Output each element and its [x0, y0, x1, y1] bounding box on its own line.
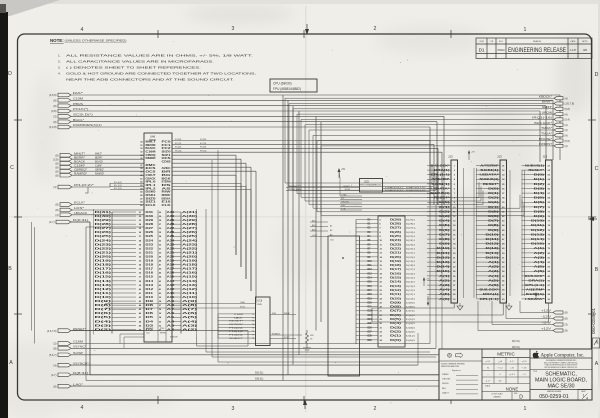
svg-text:A(6): A(6): [439, 298, 450, 301]
wire FC(1)1: [172, 143, 434, 145]
svg-text:D(3)1: D(3)1: [406, 327, 416, 329]
power stub -12V: [553, 317, 563, 320]
wire IPL2: [110, 189, 144, 191]
svg-text:DSK1: DSK1: [146, 195, 157, 197]
svg-text:D(10): D(10): [95, 296, 112, 299]
wire VSYNCD*+: [71, 364, 418, 366]
svg-text:A(5): A(5): [439, 293, 450, 296]
wire cpu right ctl drop 9: [250, 190, 252, 292]
svg-text:A/TERM*: A/TERM*: [480, 164, 498, 167]
svg-text:A(6): A(6): [488, 284, 499, 287]
wire UC5 stub DS*: [340, 199, 362, 201]
input stub SUSP: [58, 353, 71, 357]
wire TM0A* drop: [308, 130, 310, 205]
svg-text:PD(1)1: PD(1)1: [200, 151, 207, 153]
svg-text:RESET*: RESET*: [288, 186, 301, 188]
fold crease horizontal: [9, 216, 599, 217]
wire UC5 stub OSCDSC: [340, 202, 362, 204]
svg-text:A(9): A(9): [182, 300, 198, 303]
svg-text:(8): (8): [53, 384, 56, 388]
svg-text:D(19)1: D(19)1: [406, 261, 416, 263]
svg-text:PD(1)1: PD(1)1: [175, 151, 182, 153]
svg-text:D(13)1: D(13)1: [406, 286, 416, 288]
wire IRQ1(-16) drop: [300, 119, 302, 197]
svg-text:CS/ID: CS/ID: [257, 304, 263, 306]
svg-text:PROGRAMMED16: PROGRAMMED16: [360, 184, 381, 187]
wire FC(0)1: [172, 140, 430, 142]
svg-text:D(0): D(0): [390, 340, 402, 342]
svg-text:IPL(0:2)*: IPL(0:2)*: [74, 183, 94, 187]
svg-text:A(2): A(2): [439, 279, 450, 282]
wire FC(0)1 drop: [429, 141, 431, 206]
svg-text:RMC: RMC: [162, 195, 172, 197]
wire PCLK(*): [71, 110, 540, 112]
svg-text:DRA(1): DRA(1): [434, 169, 450, 172]
svg-text:SCSI.D(*): SCSI.D(*): [73, 113, 93, 117]
svg-text:P2C8: P2C8: [240, 307, 245, 309]
svg-text:∠ 2°: ∠ 2°: [486, 380, 491, 383]
input stub LBGACK: [60, 213, 72, 217]
svg-text:∠ 1°: ∠ 1°: [510, 360, 515, 363]
svg-text:D(20): D(20): [390, 257, 401, 259]
wire vertical feed 5: [443, 116, 445, 205]
svg-text:4-2-87: 4-2-87: [570, 50, 577, 52]
svg-text:MOUSE*: MOUSE*: [539, 137, 552, 141]
wire RESET*: [71, 330, 248, 332]
svg-text:A(5): A(5): [488, 279, 499, 282]
CPU/FPU note box: [270, 79, 317, 92]
wire cpu right ctl 6: [172, 174, 236, 176]
wire cpu right ctl 5: [172, 170, 256, 172]
svg-text:UC8: UC8: [258, 301, 263, 303]
svg-text:4: 4: [81, 27, 84, 33]
svg-text:J13: J13: [497, 155, 502, 159]
wire TM1A*: [313, 134, 554, 136]
svg-text:A: A: [9, 360, 13, 366]
svg-text:A(10): A(10): [182, 296, 197, 299]
svg-text:D(19): D(19): [95, 260, 112, 263]
power stub +12V: [553, 311, 563, 314]
wire vertical bus right of CPU: [196, 209, 198, 335]
svg-text:FC(1)1: FC(1)1: [200, 143, 207, 145]
svg-text:D(24)1: D(24)1: [406, 240, 416, 242]
output stub MOUSE*: [554, 139, 563, 142]
svg-text:( ) DENOTES SHEET TO SHEET REF: ( ) DENOTES SHEET TO SHEET REFERENCES.: [66, 66, 201, 70]
svg-text:(4): (4): [53, 363, 56, 367]
svg-text:1.: 1.: [58, 54, 61, 58]
svg-text:D(9): D(9): [95, 300, 112, 303]
wire A bus loop: [85, 227, 87, 381]
wire vertical feed 2: [552, 100, 554, 160]
svg-text:IPL0: IPL0: [146, 182, 157, 184]
svg-text:SYM: SYM: [479, 41, 484, 43]
svg-text:D(22)1: D(22)1: [406, 248, 416, 250]
title block compartments: [481, 349, 483, 400]
svg-text:SYSC*: SYSC*: [284, 337, 290, 339]
svg-text:CLKP: CLKP: [312, 235, 318, 237]
svg-text:A(14): A(14): [182, 280, 197, 283]
svg-text:C16M*: C16M*: [74, 163, 85, 167]
svg-text:PBUS: PBUS: [73, 102, 83, 106]
svg-text:D(1)1: D(1)1: [406, 336, 416, 338]
svg-text:FC1: FC1: [162, 145, 172, 147]
svg-text:Apple Computer, Inc.: Apple Computer, Inc.: [541, 353, 585, 358]
svg-text:APPD: APPD: [582, 40, 588, 43]
wire LAG*: [71, 385, 560, 387]
svg-text:D(14): D(14): [390, 281, 401, 284]
svg-text:D(18): D(18): [95, 264, 112, 267]
svg-text:J13: J13: [543, 155, 548, 159]
tolerance symbol grid: [493, 358, 495, 384]
svg-text:A(26): A(26): [182, 231, 197, 234]
wire LAG end: [559, 381, 561, 387]
wire KBDCK*: [285, 97, 554, 99]
svg-text:(8): (8): [55, 165, 58, 169]
svg-text:LDS*: LDS*: [74, 206, 84, 210]
IC UB6 pins A(1:3): [310, 221, 328, 223]
svg-text:(UNLESS OTHERWISE SPECIFIED): (UNLESS OTHERWISE SPECIFIED): [65, 39, 127, 43]
svg-text:(4): (4): [55, 213, 58, 217]
svg-text:+5V: +5V: [530, 290, 534, 292]
svg-text:A(23): A(23): [182, 243, 197, 246]
svg-text:DRA(1): DRA(1): [483, 293, 499, 296]
svg-text:D(24): D(24): [95, 239, 112, 242]
wire BUS.GCK* mid run: [305, 200, 481, 202]
wire KBDCK* drop: [284, 98, 286, 183]
svg-text:IPL1: IPL1: [146, 185, 157, 187]
IC UC8 body: [256, 297, 271, 346]
svg-text:D(18): D(18): [390, 265, 401, 267]
svg-text:D(20): D(20): [95, 255, 112, 258]
svg-text:⌯ 0.2: ⌯ 0.2: [497, 368, 503, 370]
svg-text:A(25): A(25): [182, 235, 197, 238]
svg-text:FC0: FC0: [162, 141, 172, 143]
svg-text:D(7)1: D(7)1: [406, 311, 416, 313]
wire MOUSE* mid run: [317, 211, 522, 213]
svg-text:CBREQ*: CBREQ*: [95, 169, 104, 171]
+5V power symbol: [338, 170, 340, 178]
svg-text:MHLT*: MHLT*: [95, 153, 102, 155]
svg-text:VSYNCD*+: VSYNCD*+: [73, 361, 91, 365]
wire cpu right ctl drop 3: [245, 163, 247, 279]
wire ECLK*: [72, 204, 144, 206]
svg-text:D(17): D(17): [390, 269, 401, 271]
svg-text:RAMRDEN(4)(1): RAMRDEN(4)(1): [73, 123, 102, 127]
svg-text:D: D: [595, 72, 599, 78]
svg-text:FC(1)1: FC(1)1: [175, 143, 182, 145]
svg-text:RESET*: RESET*: [73, 327, 86, 331]
svg-text:D1: D1: [479, 48, 485, 53]
wire cpu right ctl 1: [172, 154, 236, 156]
svg-text:C10M: C10M: [73, 97, 83, 101]
wire TM1A* drop: [312, 135, 314, 208]
svg-text:(4): (4): [565, 144, 568, 148]
wire B/W*: [289, 103, 554, 105]
wire vertical bus drop 3: [292, 106, 294, 365]
drawing number row: [530, 389, 592, 391]
svg-text:A20: A20: [167, 255, 176, 258]
wire VSYNCD end: [417, 333, 419, 365]
svg-text:A3: A3: [330, 234, 332, 237]
svg-text:A(17): A(17): [182, 268, 197, 271]
wire DSACK1(1)*: [383, 191, 431, 193]
wire VSYNC long: [435, 205, 437, 348]
wire +12V: [520, 312, 553, 314]
svg-text:A30: A30: [167, 215, 176, 218]
svg-text:A(2): A(2): [534, 252, 545, 255]
svg-text:(5,4): (5,4): [565, 118, 570, 122]
svg-text:A(13): A(13): [182, 284, 197, 287]
svg-text:(3): (3): [565, 323, 568, 327]
svg-text:RAMRD*: RAMRD*: [74, 171, 87, 175]
svg-text:A(3): A(3): [534, 256, 545, 259]
svg-text:DSACK0(1,8)*: DSACK0(1,8)*: [406, 186, 426, 189]
wire UC8 left bus: [217, 314, 219, 338]
svg-text:D(15)1: D(15)1: [406, 278, 416, 280]
svg-text:J13: J13: [448, 155, 453, 159]
svg-text:A(29): A(29): [182, 219, 197, 222]
svg-text:D(25)1: D(25)1: [406, 236, 416, 238]
wire cpu right ctl drop 1: [235, 155, 237, 255]
svg-text:A28: A28: [167, 223, 176, 226]
output stub KBDCK*: [554, 97, 563, 100]
svg-text:D(4): D(4): [534, 192, 545, 195]
Apple Computer Inc header: [530, 357, 592, 359]
svg-text:FPU (68881/68882): FPU (68881/68882): [273, 87, 301, 91]
svg-text:A/TERM*: A/TERM*: [526, 289, 544, 292]
wire vertical feed 7: [429, 127, 431, 205]
wire vertical feed 6: [436, 122, 438, 205]
revision table headers: [479, 40, 588, 43]
svg-text:BGACK: BGACK: [146, 147, 156, 150]
svg-text:RA*: RA*: [73, 91, 83, 95]
svg-text:A(8): A(8): [182, 304, 198, 307]
svg-text:2.: 2.: [58, 60, 61, 64]
svg-text:A(3): A(3): [439, 284, 450, 287]
svg-text:3: 3: [232, 406, 235, 412]
svg-text:UNLESS OTHERWISE SPECIFIED: UNLESS OTHERWISE SPECIFIED: [441, 364, 466, 366]
wire cpu right ctl 4: [172, 166, 251, 168]
wire PD(1)1: [172, 151, 442, 153]
wire vertical bus drop 4: [298, 111, 300, 355]
svg-text:A29: A29: [167, 219, 176, 222]
wire vertical feeds between connectors: [463, 168, 465, 298]
svg-text:D(0)1: D(0)1: [406, 340, 416, 342]
wire LDS*: [72, 209, 144, 211]
input stub C16M*: [60, 165, 72, 169]
svg-text:A(3): A(3): [182, 324, 198, 327]
svg-text:A(1): A(1): [312, 220, 316, 223]
wire cpu right ctl drop 5: [255, 171, 257, 303]
wire connector J13 bottom drop: [548, 303, 550, 322]
svg-text:D(12)1: D(12)1: [406, 290, 416, 292]
svg-text:BGACK: BGACK: [74, 159, 85, 163]
wire LBGACK: [72, 214, 144, 216]
svg-text:SIZ1: SIZ1: [146, 202, 157, 204]
wire vertical bus left of CPU: [111, 212, 113, 334]
svg-text:A17: A17: [167, 268, 176, 271]
svg-text:A(21): A(21): [182, 251, 197, 254]
svg-text:I.SDATA*: I.SDATA*: [525, 298, 544, 301]
svg-text:(8): (8): [55, 169, 58, 173]
svg-text:CDIS: CDIS: [162, 162, 172, 164]
svg-text:D(9): D(9): [390, 302, 402, 304]
svg-text:NONE: NONE: [506, 387, 519, 392]
wire B/W* drop: [288, 104, 290, 187]
svg-text:DESIGN: DESIGN: [442, 383, 449, 385]
svg-text:RESET*: RESET*: [146, 328, 154, 330]
svg-text:BGK: BGK: [162, 178, 172, 180]
svg-text:D(0:31): D(0:31): [512, 341, 520, 343]
svg-text:+12V: +12V: [541, 327, 551, 331]
svg-text:(8): (8): [565, 317, 568, 321]
wire MOUSE*: [317, 140, 554, 142]
svg-text:(8): (8): [53, 99, 56, 103]
svg-text:A13: A13: [167, 284, 176, 287]
svg-text:D(0:31): D(0:31): [73, 218, 89, 222]
title block outer: [439, 349, 592, 400]
svg-text:C16M*: C16M*: [95, 165, 102, 167]
input stub BGCL*: [58, 120, 71, 124]
wire WRT drop: [292, 109, 294, 190]
svg-text:D(21): D(21): [390, 253, 401, 255]
wire cpu right ctl 3: [172, 162, 246, 164]
wire vertical feed 1: [559, 95, 561, 160]
svg-text:△ A: △ A: [498, 360, 502, 363]
svg-text:A(22): A(22): [182, 247, 197, 250]
svg-text:3: 3: [232, 26, 235, 32]
svg-text:D(4)1: D(4)1: [406, 323, 416, 325]
wire WRT rise to connector: [435, 174, 437, 190]
IC UB6 pin CLKP: [310, 236, 328, 238]
svg-text:A15: A15: [167, 276, 176, 279]
svg-text:(3,6,8): (3,6,8): [49, 93, 57, 97]
wire loop bottom-left 4: [218, 150, 442, 362]
wire D bus loop: [71, 221, 90, 223]
svg-text:ECO: ECO: [499, 41, 504, 43]
IC UC5 pin /IRQW: [286, 190, 360, 192]
svg-text:A(2): A(2): [312, 224, 316, 227]
svg-text:E10: E10: [162, 202, 173, 204]
wire C16M: [71, 343, 430, 345]
svg-text:KBDA*: KBDA*: [284, 312, 290, 315]
svg-text:A(4): A(4): [534, 261, 545, 264]
svg-text:(4,6,7,8): (4,6,7,8): [47, 329, 57, 333]
svg-text:A(12): A(12): [182, 288, 197, 291]
svg-text:D(29)1: D(29)1: [406, 219, 416, 221]
wire D(8:31): [71, 374, 90, 376]
svg-text:A1: A1: [330, 225, 332, 228]
svg-text:050-0259-01: 050-0259-01: [591, 308, 596, 334]
wire connector J13 bottom drop: [502, 303, 504, 315]
svg-text:CBREQ*: CBREQ*: [74, 167, 87, 171]
input stub PBUS: [58, 104, 71, 108]
svg-text:BR: BR: [162, 172, 172, 174]
svg-text:D(21): D(21): [95, 251, 112, 254]
wire FC(1)1 drop: [433, 144, 435, 205]
svg-text:CIOUT: CIOUT: [146, 175, 157, 177]
svg-text:DATE: DATE: [571, 40, 577, 43]
svg-text:LAG*: LAG*: [234, 316, 244, 319]
wire XROW drop: [296, 114, 298, 194]
svg-text:(3-7): (3-7): [49, 220, 55, 224]
svg-text:XROW: XROW: [542, 110, 553, 114]
wire vertical bus drop 5: [315, 116, 317, 330]
svg-text:MHLT: MHLT: [146, 141, 157, 143]
svg-text:D(29): D(29): [390, 219, 401, 221]
wire vertical feed 4: [539, 111, 541, 162]
wire cpu right ctl drop 6: [235, 175, 237, 255]
svg-text:(8): (8): [565, 311, 568, 315]
svg-text:2: 2: [374, 406, 377, 412]
wire KBDCK* rise to connector: [431, 166, 433, 184]
wire PWRRST rise to connector: [523, 203, 525, 215]
wire UC5 stub L.RAS: [340, 195, 362, 197]
svg-text:SIZ0: SIZ0: [162, 151, 172, 153]
svg-text:RMC: RMC: [146, 165, 157, 167]
ground below R29: [303, 347, 311, 349]
svg-text:BERR*: BERR*: [74, 155, 85, 159]
svg-text:BGACK: BGACK: [95, 160, 104, 163]
svg-text:D(10)1: D(10)1: [406, 298, 416, 300]
wire cpu right ctl 8: [172, 186, 246, 188]
wire B/W* rise to connector: [433, 170, 435, 187]
revision history table: [476, 38, 592, 59]
svg-text:± 0.5: ± 0.5: [522, 361, 528, 363]
svg-text:IPL.2(1): IPL.2(1): [114, 188, 122, 190]
black scanner edge strip: [0, 12, 8, 418]
output stub WRT: [554, 107, 563, 110]
wire CBREQ*: [72, 170, 144, 172]
svg-text:VSYNC*: VSYNC*: [73, 345, 86, 349]
svg-text:A26: A26: [167, 231, 176, 234]
svg-text:C16M: C16M: [73, 340, 83, 344]
wire C16M long: [429, 205, 431, 344]
svg-text:A18: A18: [167, 264, 176, 267]
wire +12V drop: [519, 301, 521, 313]
svg-text:A22: A22: [167, 247, 176, 250]
wire cpu right ctl drop 4: [250, 167, 252, 291]
wire -5V: [492, 324, 553, 326]
fold mark arrow bottom center: [304, 400, 306, 409]
svg-text:(8): (8): [55, 203, 58, 207]
wire TM0A* rise to connector: [482, 191, 484, 205]
svg-text:D(4): D(4): [439, 220, 450, 223]
svg-text:D(7): D(7): [95, 308, 112, 311]
wire vertical bus left of UD5: [355, 220, 357, 345]
svg-text:DRA(1): DRA(1): [528, 279, 544, 282]
svg-text:A: A: [595, 361, 599, 367]
wire DSACK0(1)*: [383, 188, 431, 190]
svg-text:DS: DS: [162, 185, 172, 187]
wire far-left vertical 1: [31, 222, 33, 331]
svg-text:A(18): A(18): [182, 264, 197, 267]
svg-text:+5V: +5V: [341, 169, 346, 171]
svg-text:CHECKED: CHECKED: [442, 379, 451, 381]
svg-text:C16M: C16M: [146, 151, 156, 153]
svg-text:D(22): D(22): [390, 248, 401, 250]
svg-text:BG: BG: [162, 175, 172, 177]
svg-text:RESET*: RESET*: [343, 186, 350, 188]
wire UC5 +5V drop: [339, 178, 341, 196]
svg-text:LAG*: LAG*: [73, 382, 83, 386]
svg-text:(3,8): (3,8): [53, 157, 58, 161]
svg-text:A(4): A(4): [182, 320, 198, 323]
svg-text:A(2): A(2): [182, 328, 198, 331]
+5V symbol above J13-3: [535, 294, 537, 300]
svg-text:TITLE: TITLE: [533, 371, 537, 373]
input stub RA*: [58, 93, 71, 97]
